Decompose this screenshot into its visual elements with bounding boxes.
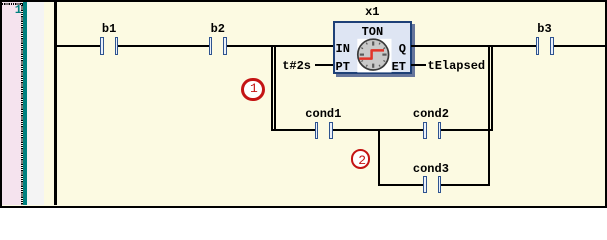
label cond2 [413,108,449,120]
wire: t#2s to PT [315,64,334,66]
contact b1 [100,37,104,55]
output variable tElapsed [428,60,486,72]
label cond3 [413,163,449,175]
left power rail [54,2,57,205]
contact cond1 [315,122,319,139]
dotted selection border top [2,3,23,5]
input literal t#2s [282,60,311,72]
label b1 [102,23,116,35]
instance label x1 [365,6,379,18]
pin ET [392,61,406,73]
wire: b1 to b2 [118,45,208,47]
label b2 [211,23,225,35]
contact b3 [536,37,540,55]
merge vertical pair at node B [488,45,490,185]
wire: rail to contact b1 [56,45,101,47]
left margin: network selection strip (pink) [2,2,22,205]
branch wire: node A to cond1 [271,129,315,131]
teal divider bar [23,2,26,205]
timer clock icon [356,38,392,73]
label b3 [537,23,551,35]
branch wire: cond2 to node B [441,129,493,131]
TON function block U1 [333,21,412,75]
sub-branch wire: cond3 to node B [441,184,490,186]
pin PT [336,61,350,73]
sub-branch wire: node C to cond3 [378,184,423,186]
branch wire: cond1 to cond2 [333,129,423,131]
wire: b2 to TON block IN [227,45,333,47]
label cond1 [305,108,341,120]
pin IN [336,43,350,55]
branch vertical pair at node A [271,45,273,131]
contact cond3 [423,176,427,193]
network number 1 [15,4,22,16]
dotted selection border right [21,3,23,205]
contact cond2 [423,122,427,139]
wire: b3 to right border [554,45,605,47]
wire: ET to tElapsed [411,64,426,66]
red marker circle 2 [351,149,370,168]
contact b2 [209,37,213,55]
sub-branch vertical at node C [378,129,380,185]
pin Q [399,43,406,55]
wire: Q output to b3 [411,45,536,47]
block title TON [362,26,384,38]
gray gutter strip [27,2,44,205]
red marker circle 1 [241,78,265,102]
